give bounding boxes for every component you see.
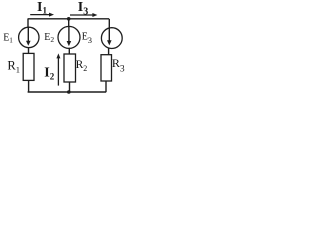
EMF source E2 [58,26,80,48]
svg-text:E2: E2 [44,32,54,44]
resistor R1 [23,53,34,80]
svg-text:R1: R1 [7,59,20,75]
wire middle branch middle [68,48,70,54]
svg-text:I2: I2 [44,65,54,81]
wire left branch middle [28,48,30,54]
current arrow I2 [56,53,60,85]
node junction bottom (branch 2) [67,90,71,94]
wire left branch lower [28,80,30,92]
current arrow I3 [70,13,97,17]
wire right branch upper [108,19,110,28]
svg-text:R2: R2 [76,59,88,73]
EMF source E3 [101,28,122,49]
svg-text:I1: I1 [37,0,47,16]
node junction top (branch 2) [67,17,71,21]
wire right branch middle [108,48,110,54]
resistor R3 [101,55,112,81]
current arrow I1 [30,13,54,17]
wire middle branch upper [68,19,70,27]
wire right branch lower [105,81,107,92]
wire left branch upper [27,19,29,28]
wire top rail [28,18,109,20]
svg-text:I3: I3 [78,0,88,17]
svg-text:R3: R3 [112,56,125,74]
resistor R2 [64,54,76,82]
EMF source E1 [19,27,39,47]
svg-text:E3: E3 [82,31,92,45]
wire middle branch lower [69,82,71,92]
svg-text:E1: E1 [3,32,13,44]
wire bottom rail [28,91,107,93]
